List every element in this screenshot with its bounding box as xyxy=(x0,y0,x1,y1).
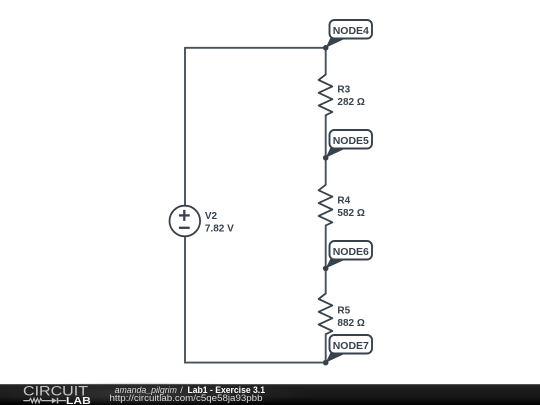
svg-text:NODE4: NODE4 xyxy=(333,25,369,37)
svg-text:282 Ω: 282 Ω xyxy=(337,97,364,108)
svg-text:R3: R3 xyxy=(337,85,350,96)
svg-text:V2: V2 xyxy=(205,211,218,222)
node NODE7 xyxy=(326,335,372,363)
junction NODE6 xyxy=(323,266,329,272)
svg-text:R4: R4 xyxy=(337,196,350,207)
svg-text:NODE5: NODE5 xyxy=(333,135,369,147)
junction NODE7 xyxy=(323,360,329,366)
svg-text:R5: R5 xyxy=(337,306,350,317)
wire right segment R5 to bottom xyxy=(325,334,327,362)
voltage source V2 xyxy=(170,206,201,237)
resistor R4 xyxy=(319,185,333,226)
svg-text:NODE7: NODE7 xyxy=(333,340,369,352)
svg-text:http://circuitlab.com/c5qe58ja: http://circuitlab.com/c5qe58ja93pbb xyxy=(110,393,263,403)
wire right segment R4 to R5 xyxy=(325,226,327,294)
wire right segment R3 to R4 xyxy=(325,115,327,185)
svg-text:882 Ω: 882 Ω xyxy=(337,318,364,329)
wire right segment NODE4 to R3 xyxy=(325,48,327,75)
svg-text:NODE6: NODE6 xyxy=(333,246,369,258)
wire top horizontal xyxy=(185,47,326,49)
svg-text:LAB: LAB xyxy=(66,396,91,405)
logo zigzag wire xyxy=(23,398,52,402)
resistor R3 xyxy=(319,75,333,116)
junction NODE5 xyxy=(323,155,329,161)
wire bottom horizontal xyxy=(185,362,326,364)
resistor R5 xyxy=(319,294,333,335)
junction NODE4 xyxy=(323,45,329,51)
node NODE5 xyxy=(326,130,372,158)
footer bar xyxy=(0,384,540,405)
node NODE6 xyxy=(326,241,372,268)
svg-text:582 Ω: 582 Ω xyxy=(337,208,364,219)
node NODE4 xyxy=(326,20,372,48)
logo diode xyxy=(52,398,57,404)
wire left upper xyxy=(184,48,186,206)
wire left lower xyxy=(184,236,186,362)
svg-text:7.82 V: 7.82 V xyxy=(205,224,234,235)
